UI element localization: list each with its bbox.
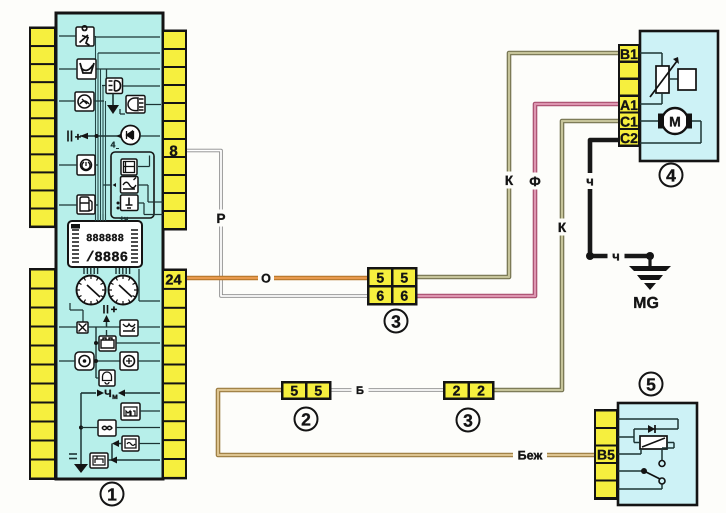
svg-text:2: 2 [477,383,485,399]
svg-text:К: К [558,220,567,235]
svg-text:1: 1 [107,485,117,505]
svg-text:C1: C1 [620,113,638,129]
svg-text:5: 5 [314,383,322,399]
svg-text:C2: C2 [620,130,638,146]
svg-text:2: 2 [301,410,311,430]
svg-text:5: 5 [290,383,298,399]
svg-text:+: + [75,132,81,144]
svg-text:24: 24 [165,273,181,289]
svg-text:2: 2 [453,383,461,399]
svg-text:5: 5 [400,269,408,285]
svg-text:ч: ч [612,249,620,264]
svg-text:M: M [669,114,681,130]
svg-text:Ф: Ф [529,174,541,189]
svg-text:м: м [112,392,118,401]
svg-text:Р: Р [216,211,225,226]
svg-text:6: 6 [400,287,408,303]
svg-text:6: 6 [376,287,384,303]
svg-text:A1: A1 [620,97,638,113]
svg-text:4: 4 [111,140,116,150]
svg-text:5: 5 [646,375,656,395]
svg-text:3: 3 [391,312,401,332]
svg-text:888888: 888888 [86,233,124,245]
svg-text:К: К [505,173,514,188]
svg-text:B1: B1 [620,46,638,62]
svg-text:B5: B5 [597,447,615,463]
svg-text:Б: Б [356,385,364,397]
svg-text:+ч: +ч [120,214,129,223]
svg-text:3: 3 [463,411,473,431]
svg-text:4: 4 [666,166,676,186]
svg-text:ч: ч [586,174,594,189]
svg-text:5: 5 [376,269,384,285]
svg-text:MG: MG [633,295,659,312]
svg-text:Беж: Беж [518,449,543,463]
svg-text:8: 8 [169,143,177,160]
svg-text:О: О [261,272,271,286]
svg-text:+: + [111,304,117,316]
svg-text:/8886: /8886 [86,250,128,266]
svg-text:Ч: Ч [104,388,111,400]
